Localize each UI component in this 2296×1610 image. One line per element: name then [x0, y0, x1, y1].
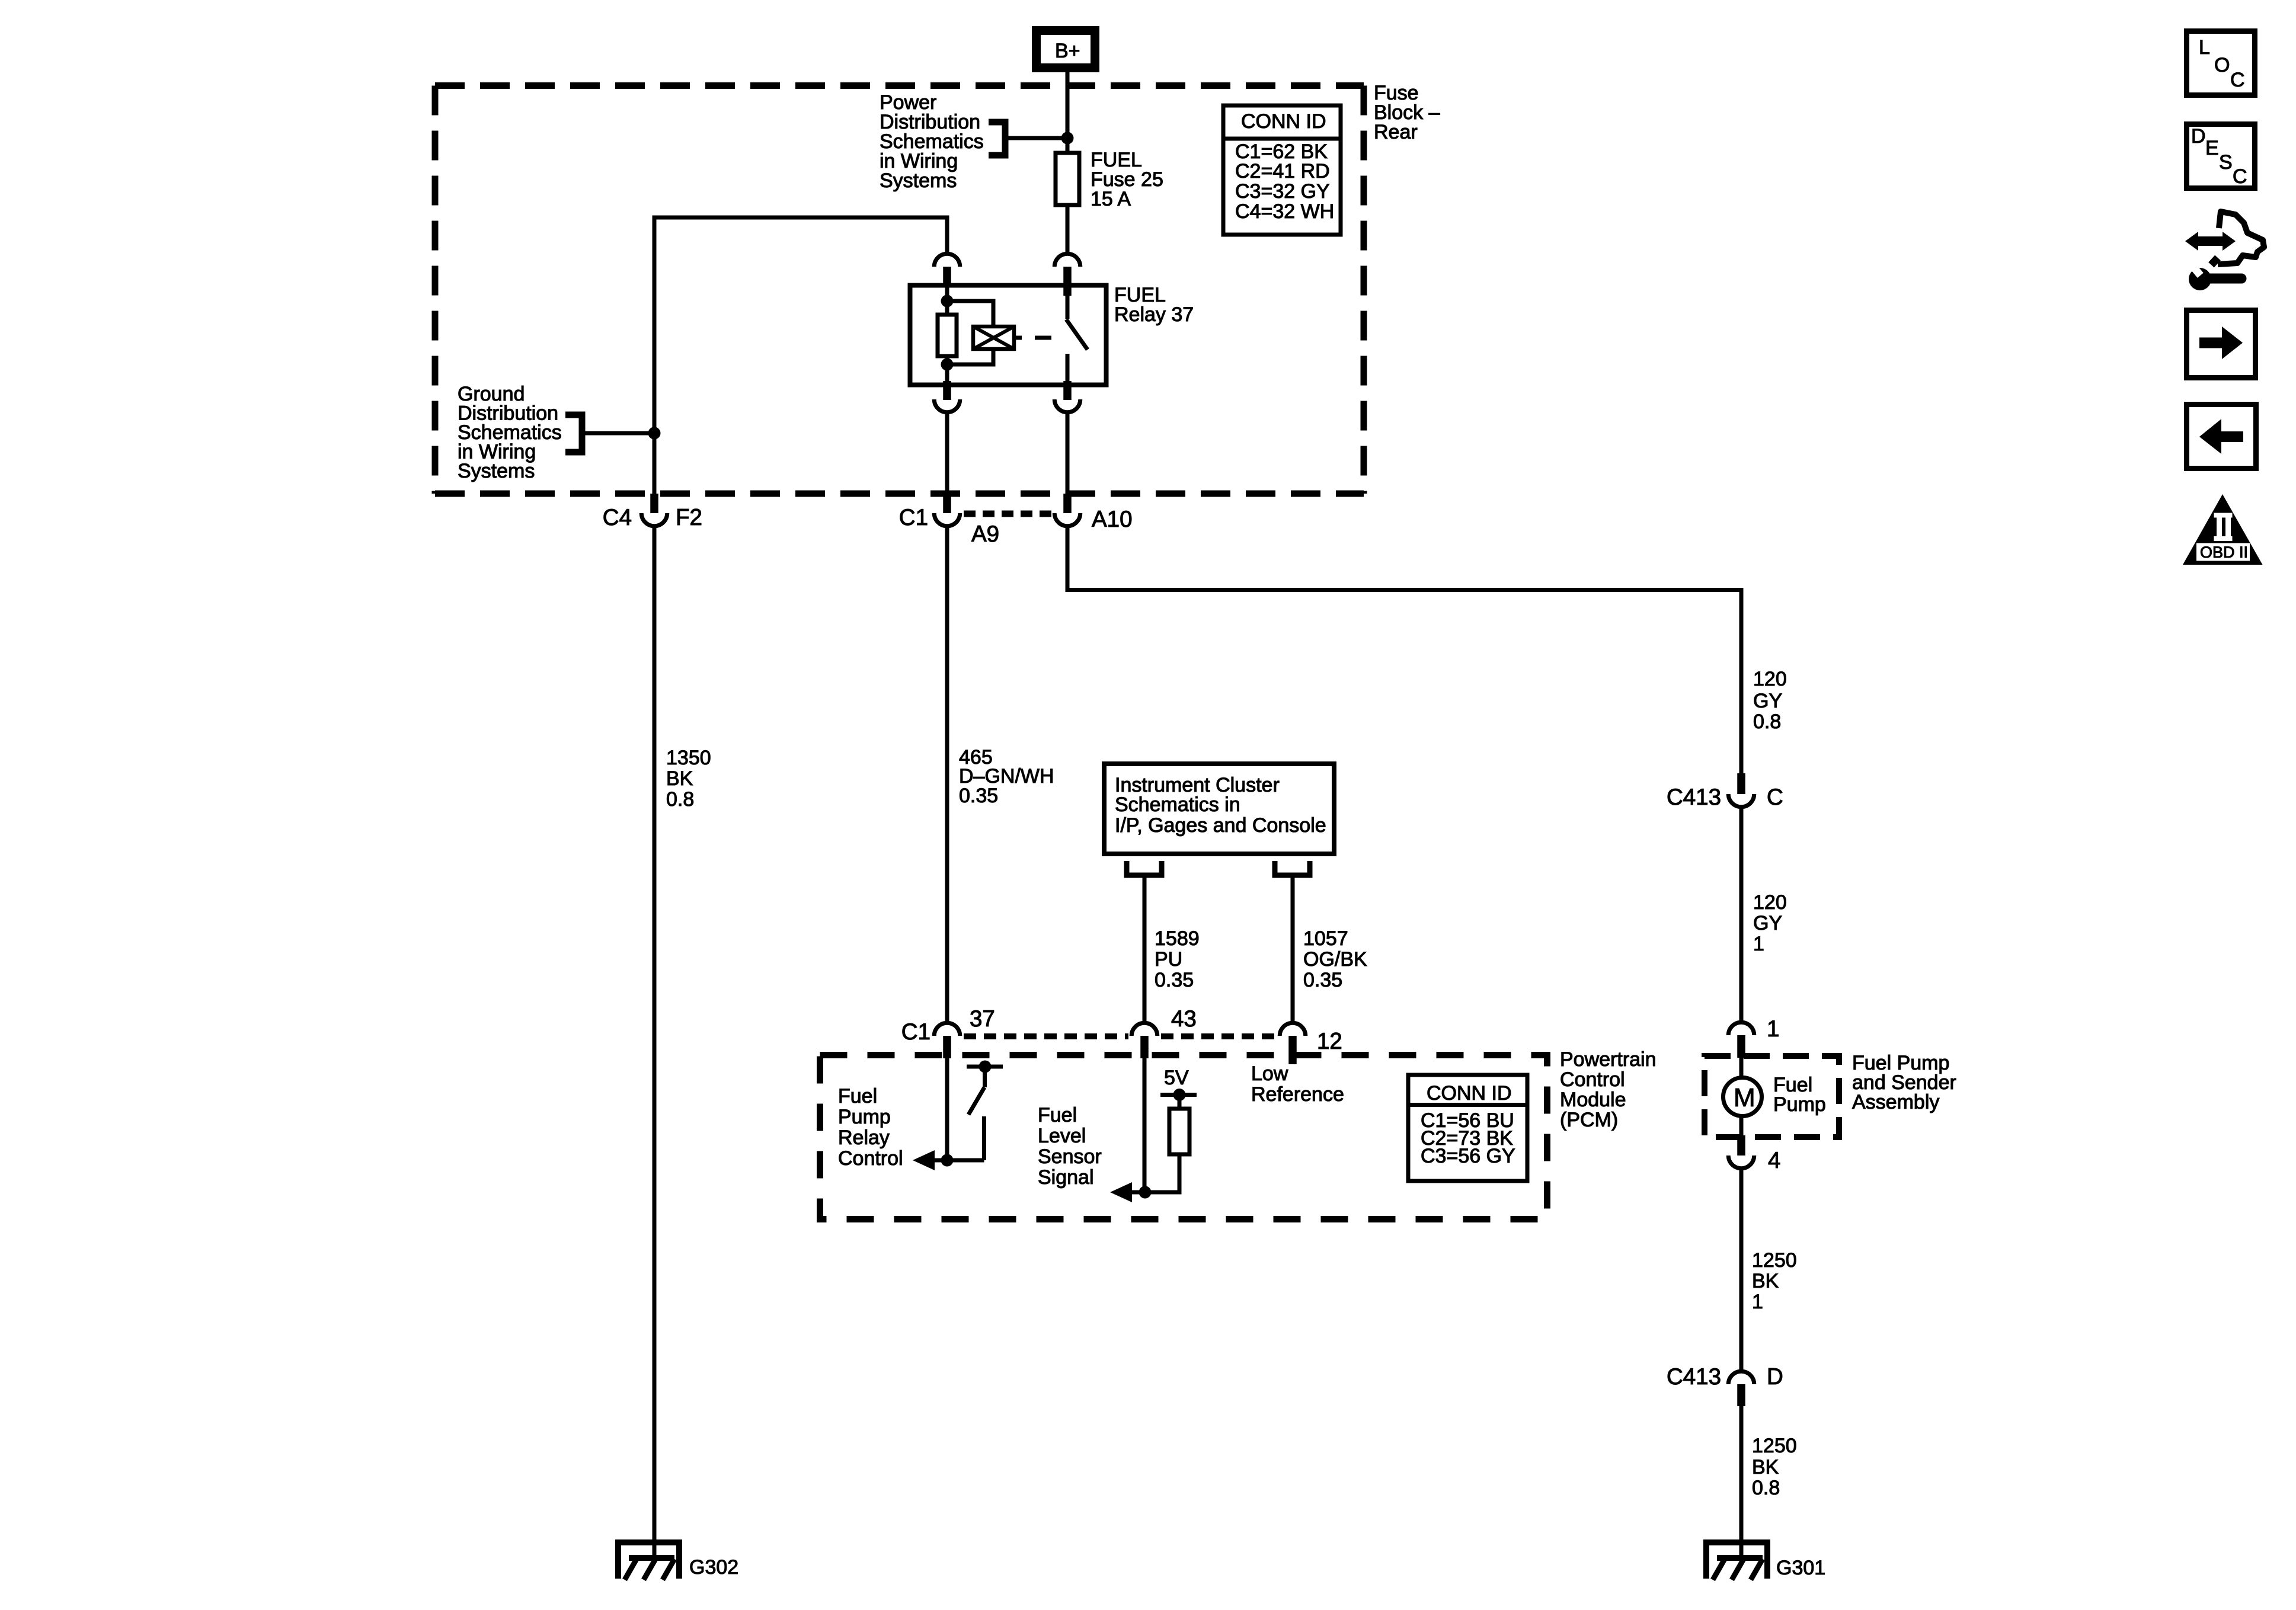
label Fuel Pump and Sender Assembly [1852, 1052, 1956, 1113]
svg-text:1057: 1057 [1303, 927, 1348, 950]
svg-text:G302: G302 [689, 1556, 738, 1579]
pin relay bottom right [1063, 381, 1072, 400]
pin 1 [1737, 1035, 1745, 1058]
node junction relay control [941, 1154, 954, 1167]
connector arc PCM pin 12 [1280, 1023, 1306, 1036]
label 465 D-GN/WH 0.35 [959, 746, 1054, 807]
svg-text:S: S [2219, 151, 2233, 174]
connector C4 F2 at fuse block bottom [603, 494, 702, 530]
label 1057 OG/BK 0.35 [1303, 927, 1367, 991]
wire feeder horizontal to relay left [654, 217, 947, 497]
wire 1250 BK 0.8 to G301 [1739, 1406, 1744, 1558]
connector stub bracket right of instrument cluster [1275, 861, 1310, 875]
relay box FUEL Relay 37 [910, 286, 1107, 385]
svg-text:Pump: Pump [1773, 1093, 1826, 1116]
resistor pullup PCM [1169, 1109, 1189, 1154]
wire coil stub [1014, 336, 1022, 340]
svg-text:Control: Control [1560, 1068, 1625, 1091]
svg-text:37: 37 [970, 1006, 995, 1032]
bracket for power distribution note [989, 122, 1005, 155]
wire 5V to pullup resistor [1178, 1095, 1182, 1109]
svg-text:12: 12 [1317, 1029, 1342, 1054]
wire bottom branch to coil [947, 349, 993, 364]
wire B+ down to fuse [1066, 72, 1070, 157]
node junction 5V [1173, 1089, 1186, 1101]
label Fuel Pump [1773, 1074, 1826, 1116]
svg-text:120: 120 [1753, 891, 1787, 914]
ground G302 [615, 1539, 682, 1580]
svg-text:C4=32 WH: C4=32 WH [1235, 200, 1334, 223]
svg-text:Powertrain: Powertrain [1560, 1048, 1657, 1071]
svg-text:Schematics in: Schematics in [1115, 793, 1240, 816]
relay coil K1 [973, 327, 1014, 349]
wire fuse to relay connector [1066, 205, 1070, 254]
svg-text:1: 1 [1767, 1016, 1779, 1042]
svg-text:C413: C413 [1667, 785, 1721, 810]
wire bracket tie to B+ node [1008, 136, 1067, 140]
svg-text:C1: C1 [899, 505, 928, 530]
svg-text:Control: Control [838, 1147, 903, 1170]
wire resistor bottom to node [945, 356, 949, 385]
svg-text:0.35: 0.35 [1303, 969, 1342, 991]
wire in-line connector dashes A9 [964, 511, 1052, 517]
svg-text:Level: Level [1038, 1125, 1086, 1147]
switch PCM driver [967, 1061, 1003, 1161]
label Powertrain Control Module (PCM) [1560, 1048, 1657, 1131]
pin 4 [1737, 1135, 1745, 1156]
icon OBD II triangle [2183, 494, 2263, 565]
svg-text:Reference: Reference [1251, 1083, 1344, 1106]
svg-text:120: 120 [1753, 668, 1787, 690]
label Fuel Level Sensor Signal [1038, 1104, 1102, 1189]
node relay coil top junction [941, 295, 954, 308]
fuel pump and sender assembly dashed box [1705, 1056, 1839, 1137]
svg-text:(PCM): (PCM) [1560, 1109, 1618, 1131]
wire relay out right to A10 [1066, 412, 1070, 497]
label 120 GY 1 [1753, 891, 1787, 955]
wire fuel pump relay control with arrow [925, 1158, 984, 1163]
label Low Reference [1251, 1062, 1344, 1106]
node junction sensor signal [1139, 1186, 1152, 1199]
box Instrument Cluster Schematics [1104, 764, 1334, 854]
icon DESC box [2187, 124, 2255, 188]
icon next-view arrow box [2187, 311, 2256, 378]
svg-text:C4: C4 [603, 505, 632, 530]
connector C413 terminal D [1667, 1364, 1783, 1406]
svg-text:BK: BK [1752, 1270, 1779, 1292]
connector C413 terminal C [1667, 773, 1783, 810]
svg-text:C1: C1 [901, 1019, 930, 1045]
svg-text:D: D [1767, 1364, 1783, 1390]
label 1350 BK 0.8 [666, 747, 711, 811]
pin relay top right [1063, 267, 1072, 296]
icon prev-view arrow box [2187, 405, 2256, 469]
resistor relay internal [938, 315, 957, 356]
svg-text:C3=56 GY: C3=56 GY [1421, 1145, 1515, 1167]
svg-text:E: E [2205, 137, 2219, 159]
connector C1 A9 at fuse block bottom [899, 494, 999, 547]
pin 43 [1140, 1036, 1149, 1058]
pin 12 [1288, 1036, 1297, 1064]
svg-text:5V: 5V [1164, 1067, 1189, 1089]
svg-text:Systems: Systems [458, 460, 535, 482]
wire pin 1 into pump [1739, 1058, 1744, 1077]
wire pin 43 to signal node [1143, 1058, 1147, 1192]
svg-text:C: C [2230, 69, 2245, 91]
label Fuse Block - Rear [1374, 82, 1440, 143]
svg-text:1250: 1250 [1752, 1249, 1797, 1272]
wire 1350 BK 0.8 to G302 [653, 526, 657, 1558]
node junction on ground wire [648, 427, 661, 440]
wire top branch to coil [947, 301, 993, 327]
label FUEL Relay 37 [1114, 284, 1194, 326]
label 1250 BK 0.8 [1752, 1435, 1797, 1499]
svg-text:M: M [1734, 1083, 1755, 1112]
table CONN ID pcm [1408, 1075, 1527, 1181]
svg-text:0.35: 0.35 [1155, 969, 1194, 991]
svg-text:Rear: Rear [1374, 121, 1418, 143]
svg-text:0.8: 0.8 [1752, 1477, 1780, 1499]
icon service double arrow [2185, 232, 2236, 251]
fuse block dashed box Fuse Block - Rear [435, 86, 1364, 494]
connector arc relay terminal top left [934, 254, 960, 267]
svg-text:OBD II: OBD II [2200, 543, 2248, 561]
svg-text:I/P, Gages and Console: I/P, Gages and Console [1115, 814, 1326, 837]
svg-text:43: 43 [1171, 1006, 1197, 1032]
svg-text:A9: A9 [971, 521, 999, 547]
svg-text:D: D [2191, 125, 2206, 148]
connector arc fuel pump pin 1 [1728, 1022, 1754, 1035]
svg-text:C3=32 GY: C3=32 GY [1235, 180, 1330, 203]
svg-text:Pump: Pump [838, 1106, 891, 1128]
svg-text:1: 1 [1752, 1291, 1763, 1313]
arrowhead fuel pump relay control [913, 1150, 935, 1170]
svg-text:Relay 37: Relay 37 [1114, 303, 1194, 326]
connector arc PCM pin 37 [934, 1023, 960, 1036]
connector A10 at fuse block bottom [1054, 494, 1132, 532]
wire actuator dashed link [1035, 336, 1051, 340]
svg-text:C413: C413 [1667, 1364, 1721, 1390]
wire relay left pin to resistor [945, 285, 949, 315]
bracket for ground distribution note [565, 415, 582, 452]
svg-text:1589: 1589 [1155, 927, 1200, 950]
ground G301 [1703, 1539, 1770, 1580]
svg-text:B+: B+ [1055, 40, 1080, 62]
svg-text:Signal: Signal [1038, 1166, 1094, 1189]
svg-text:0.8: 0.8 [1753, 710, 1781, 733]
wire 1057 OG/BK 0.35 [1291, 875, 1295, 1022]
connector arc relay bottom right [1054, 399, 1080, 412]
wire relay out left to C1 [945, 412, 949, 497]
power terminal B+ [1032, 26, 1099, 72]
pin relay top left [943, 267, 951, 287]
icon LOC box [2187, 31, 2255, 95]
svg-text:OG/BK: OG/BK [1303, 948, 1367, 971]
connector arc relay terminal top right [1054, 254, 1080, 267]
connector arc fuel pump pin 4 [1728, 1156, 1754, 1169]
svg-text:GY: GY [1753, 912, 1782, 934]
svg-text:C2=41 RD: C2=41 RD [1235, 160, 1330, 183]
svg-text:O: O [2214, 54, 2230, 76]
svg-text:BK: BK [1752, 1456, 1779, 1478]
pin relay bottom left [943, 381, 951, 400]
svg-text:0.8: 0.8 [666, 788, 694, 811]
fuse FUEL Fuse 25 15 A [1056, 153, 1079, 205]
svg-text:4: 4 [1768, 1148, 1780, 1173]
svg-text:Fuel: Fuel [1038, 1104, 1077, 1126]
svg-text:GY: GY [1753, 690, 1782, 712]
svg-text:Module: Module [1560, 1089, 1626, 1111]
note Ground Distribution Schematics in Wiring Systems [458, 383, 562, 482]
wire 5V supply bar [1160, 1093, 1197, 1097]
svg-text:BK: BK [666, 767, 693, 790]
icon service stub [2211, 258, 2218, 265]
svg-text:1250: 1250 [1752, 1435, 1797, 1457]
label 120 GY 0.8 [1753, 668, 1787, 733]
label FUEL Fuse 25 15 A [1091, 149, 1163, 210]
svg-text:L: L [2199, 36, 2210, 59]
label Fuel Pump Relay Control [838, 1085, 903, 1170]
pcm dashed box [820, 1055, 1547, 1219]
svg-text:Sensor: Sensor [1038, 1145, 1102, 1168]
svg-text:Relay: Relay [838, 1126, 890, 1149]
svg-text:C: C [1767, 785, 1783, 810]
wire A10 to fuel pump branch [1067, 526, 1741, 774]
switch relay contact [1066, 285, 1088, 385]
svg-text:Fuel: Fuel [838, 1085, 877, 1108]
wire 1589 PU 0.35 [1143, 875, 1147, 1022]
wire 120 GY 1 [1739, 807, 1744, 1022]
wire in-line connector dashes at PCM [964, 1033, 1277, 1039]
motor M fuel pump [1723, 1078, 1762, 1116]
svg-text:0.35: 0.35 [959, 785, 998, 807]
svg-text:1: 1 [1753, 933, 1764, 955]
svg-text:15 A: 15 A [1091, 188, 1131, 210]
wire motor to pin 4 [1739, 1116, 1744, 1135]
label 1589 PU 0.35 [1155, 927, 1200, 991]
note Power Distribution Schematics in Wiring Systems [880, 91, 984, 192]
node relay coil bottom junction [941, 359, 954, 371]
svg-text:G301: G301 [1776, 1557, 1825, 1579]
svg-text:Systems: Systems [880, 169, 957, 192]
svg-text:Assembly: Assembly [1852, 1091, 1939, 1113]
wire 465 D-GN/WH 0.35 from C1 to PCM [945, 526, 949, 1022]
connector stub bracket left of instrument cluster [1127, 861, 1162, 875]
svg-text:CONN ID: CONN ID [1427, 1082, 1512, 1105]
wire 1250 BK 1 [1739, 1169, 1744, 1370]
node junction at B+ feed [1061, 132, 1074, 145]
arrowhead fuel level sensor signal [1110, 1182, 1132, 1202]
wire resistor to signal node [1120, 1154, 1179, 1192]
svg-text:C: C [2233, 165, 2247, 188]
pin 37 [943, 1036, 951, 1058]
icon service outline [2218, 212, 2264, 264]
svg-text:F2: F2 [676, 505, 702, 530]
connector arc PCM pin 43 [1131, 1023, 1157, 1036]
label 1250 BK 1 [1752, 1249, 1797, 1313]
svg-text:A10: A10 [1092, 507, 1133, 532]
svg-text:CONN ID: CONN ID [1241, 110, 1326, 133]
svg-text:PU: PU [1155, 948, 1182, 971]
svg-text:Low: Low [1251, 1062, 1288, 1085]
wire bracket tie to ground node [584, 431, 654, 436]
table CONN ID fuse block [1223, 105, 1341, 235]
icon service wrench [2188, 261, 2241, 290]
svg-text:1350: 1350 [666, 747, 711, 769]
connector arc relay bottom left [934, 399, 960, 412]
wire pin 37 to relay control node [945, 1058, 949, 1160]
